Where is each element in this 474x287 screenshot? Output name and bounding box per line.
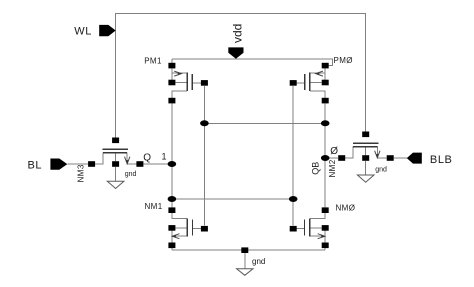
svg-text:NM1: NM1 bbox=[145, 202, 163, 211]
power vdd bbox=[228, 24, 244, 59]
junction node Q / cross-couple lower bbox=[168, 196, 177, 202]
transistor PM0 bbox=[290, 56, 353, 104]
svg-text:1: 1 bbox=[162, 151, 167, 161]
svg-text:PM1: PM1 bbox=[144, 56, 162, 65]
svg-text:QB: QB bbox=[311, 162, 321, 175]
wire QB row to node bbox=[325, 157, 338, 159]
wire WL top loop bbox=[116, 13, 366, 137]
svg-text:BL: BL bbox=[28, 160, 43, 172]
wire gate line right bbox=[292, 86, 294, 225]
wire Q (to node) bbox=[143, 163, 172, 165]
svg-text:gnd: gnd bbox=[375, 167, 387, 174]
pin BL bbox=[50, 159, 67, 170]
ground gnd (bottom rail) bbox=[237, 247, 266, 275]
wire cross couple lower bbox=[172, 198, 293, 200]
svg-text:PMØ: PMØ bbox=[334, 56, 353, 65]
junction node Q / bitline wire bbox=[168, 161, 177, 167]
wire ground rail bottom bbox=[172, 249, 325, 251]
wire node Q vertical bbox=[171, 103, 173, 207]
transistor PM1 bbox=[144, 56, 208, 103]
junction node QB / bitline-bar wire bbox=[321, 155, 330, 161]
svg-text:NM3: NM3 bbox=[77, 164, 86, 182]
svg-text:gnd: gnd bbox=[125, 171, 137, 178]
ground gnd (NM3 bulk) bbox=[107, 167, 136, 189]
svg-text:NMØ: NMØ bbox=[336, 204, 356, 213]
wire gate line left bbox=[203, 86, 205, 225]
junction gate-right / cross-couple lower bbox=[289, 196, 298, 202]
transistor NM3 bbox=[77, 138, 144, 183]
wire BLB bbox=[394, 157, 407, 159]
svg-text:BLB: BLB bbox=[430, 154, 453, 166]
svg-text:WL: WL bbox=[74, 26, 92, 38]
transistor NM0 bbox=[290, 204, 356, 251]
wire cross couple upper bbox=[204, 122, 325, 124]
pin BLB bbox=[407, 153, 422, 164]
wire BL bbox=[67, 163, 102, 165]
wire vdd rail bbox=[172, 59, 333, 66]
junction node QB / cross-couple upper bbox=[321, 120, 330, 126]
svg-text:vdd: vdd bbox=[230, 24, 244, 43]
svg-text:NM2: NM2 bbox=[328, 159, 337, 177]
svg-text:gnd: gnd bbox=[252, 257, 265, 266]
transistor NM2 bbox=[328, 132, 394, 178]
pin WL bbox=[99, 25, 116, 36]
ground gnd (NM2 bulk) bbox=[357, 161, 387, 182]
svg-text:Ø: Ø bbox=[330, 146, 338, 157]
transistor NM1 bbox=[145, 202, 208, 250]
wire node QB vertical bbox=[324, 103, 326, 207]
svg-text:Q: Q bbox=[143, 153, 151, 164]
junction gate-left / cross-couple upper bbox=[200, 120, 209, 126]
